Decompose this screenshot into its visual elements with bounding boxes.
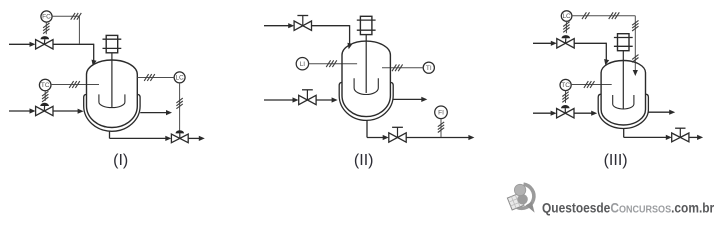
logo grid card — [507, 193, 524, 210]
feed arrow onto dome III — [604, 59, 609, 65]
control valve CV5 — [557, 105, 574, 118]
hand valve HV4 — [672, 128, 689, 142]
drain outlet arrow III — [697, 135, 703, 140]
signal FC tap line (hashed) — [52, 13, 81, 44]
drain pipe III — [624, 128, 667, 137]
svg-text:(II): (II) — [354, 152, 374, 169]
pipe feed-2 (diagram I) — [9, 110, 30, 112]
signal TI sensing line (hashed) — [382, 64, 423, 71]
pipe feed-2 into jacket — [53, 110, 78, 112]
jacket outlet pipe II — [393, 98, 422, 100]
instrument FC — [41, 11, 52, 22]
signal LC sensing line (hashed) — [137, 74, 174, 81]
arrow into jacket I — [78, 109, 84, 114]
jacket outlet arrow I — [166, 110, 172, 115]
feed arrow onto dome II — [347, 43, 352, 49]
agitator impeller III — [613, 95, 634, 109]
motor M-III — [614, 34, 633, 51]
signal LC to CV3 (hashed) — [176, 83, 182, 133]
signal TC sensing line (hashed) — [51, 81, 99, 88]
drain outlet arrow I — [199, 136, 205, 141]
pipe feed-1 to vessel top III — [574, 43, 606, 61]
drain pipe II — [367, 120, 383, 137]
agitator shaft III — [622, 51, 624, 109]
agitator impeller I — [99, 94, 125, 107]
jacket I — [84, 94, 140, 131]
flow arrow into valve HV1 — [288, 23, 294, 28]
svg-text:LC: LC — [175, 75, 184, 82]
jacket II — [339, 82, 393, 120]
pipe feed-2 (diagram III) — [533, 112, 551, 114]
control valve CV1 — [36, 36, 53, 49]
control valve CV3 — [171, 130, 188, 143]
LC sensing arrow into vessel III — [633, 70, 638, 76]
vessel shell III — [601, 60, 645, 125]
svg-text:FC: FC — [42, 14, 51, 21]
instrument LC (I) — [174, 72, 185, 83]
instrument TI — [423, 62, 434, 73]
jacket outlet pipe I — [140, 112, 166, 114]
signal LC to CV4 (hashed) — [563, 21, 569, 33]
agitator impeller II — [354, 78, 378, 94]
flow arrow into valve HV2 — [293, 97, 299, 102]
svg-text:TC: TC — [561, 82, 570, 89]
flow arrow into valve CV5 — [551, 111, 557, 116]
jacket outlet pipe III — [648, 111, 669, 113]
instrument LC (III) — [561, 11, 572, 22]
vessel shell I — [87, 60, 138, 128]
signal TC sensing line (hashed) — [571, 81, 612, 88]
svg-text:TC: TC — [41, 82, 50, 89]
jacket outlet arrow III — [669, 110, 675, 115]
flow arrow into valve CV4 — [551, 41, 557, 46]
arrow into jacket III — [591, 111, 597, 116]
svg-text:(III): (III) — [604, 152, 628, 169]
signal TC to CV5 (hashed) — [562, 91, 568, 103]
pipe feed-2 into jacket II — [316, 99, 332, 101]
pipe feed-1 (diagram II) — [264, 25, 289, 27]
pipe feed-1 to vessel top — [53, 44, 94, 62]
pipe feed-1 (diagram III) — [533, 42, 551, 44]
agitator shaft I — [111, 53, 113, 107]
agitator shaft II — [365, 35, 367, 93]
vessel shell II — [342, 41, 390, 117]
instrument FI — [435, 106, 448, 119]
svg-text:(I): (I) — [113, 152, 128, 169]
pipe feed-2 (diagram II) — [264, 99, 293, 101]
flow arrow into valve CV1 — [30, 42, 36, 47]
arrow into jacket II — [332, 97, 338, 102]
pipe feed-2 into jacket III — [574, 112, 592, 114]
logo wordmark — [542, 200, 714, 216]
signal FI tap line (hashed) — [438, 119, 444, 137]
hand valve HV2 — [299, 90, 316, 105]
drain pipe I — [110, 131, 166, 139]
motor M-I — [103, 35, 122, 52]
jacket outlet arrow II — [421, 97, 427, 102]
control valve CV4 — [557, 35, 574, 48]
instrument TC (III) — [560, 79, 571, 90]
motor M-II — [357, 16, 376, 34]
svg-text:LI: LI — [300, 61, 306, 68]
drain outlet pipe I — [188, 137, 199, 139]
instrument LI — [296, 58, 308, 70]
drain outlet arrow II — [468, 135, 474, 140]
signal LC sensing line (hashed) — [572, 12, 639, 71]
logo body circle — [517, 194, 527, 204]
drain outlet pipe III — [689, 136, 698, 138]
logo head circle — [514, 184, 525, 195]
logo magnifier ring — [517, 184, 534, 208]
flow arrow into valve HV4 — [666, 135, 672, 140]
signal TC to CV2 (hashed) — [42, 91, 48, 102]
svg-text:TI: TI — [426, 65, 432, 72]
instrument TC (I) — [39, 79, 51, 91]
drain outlet pipe II — [406, 137, 469, 139]
logo magnifier handle — [526, 202, 535, 213]
svg-text:FI: FI — [438, 109, 444, 116]
svg-text:LC: LC — [562, 13, 571, 20]
signal FC to CV1 (hashed) — [43, 22, 49, 34]
feed arrow onto dome I — [92, 60, 97, 66]
pipe feed-1 (diagram I) — [9, 43, 30, 45]
flow arrow into valve CV3 — [165, 136, 171, 141]
flow arrow into valve CV2 — [30, 108, 36, 113]
signal LI sensing line (hashed) — [309, 60, 358, 67]
jacket III — [598, 94, 648, 128]
hand valve HV1 — [294, 16, 311, 31]
flow arrow into valve HV3 — [383, 135, 389, 140]
hand valve HV3 — [389, 127, 406, 142]
pipe feed-1 to vessel top II — [312, 25, 350, 44]
control valve CV2 — [36, 103, 53, 116]
